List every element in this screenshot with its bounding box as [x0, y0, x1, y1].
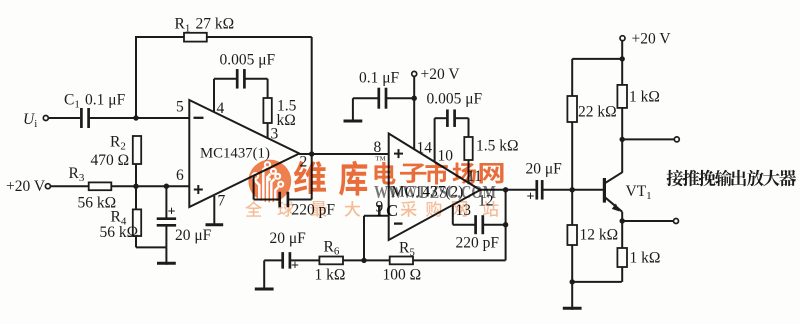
svg-text:+: + [168, 205, 176, 220]
watermark big text 电子市场网 [375, 161, 504, 184]
wire node up to pin9 [363, 216, 365, 261]
wire 220pF right [288, 199, 312, 201]
svg-text:R1 27 kΩ: R1 27 kΩ [175, 15, 235, 34]
svg-text:4: 4 [217, 100, 225, 117]
terminal +20V right [620, 36, 625, 41]
resistor 12k [567, 225, 577, 245]
svg-text:220 pF: 220 pF [456, 235, 500, 252]
resistor R1 [184, 33, 207, 42]
svg-text:22 kΩ: 22 kΩ [578, 104, 617, 121]
svg-text:0.005 μF: 0.005 μF [220, 52, 276, 69]
wire comp cap to 1.5k [244, 78, 267, 80]
wire R1 right drop to output node [311, 37, 313, 154]
svg-text:1 kΩ: 1 kΩ [629, 89, 660, 106]
wire bottom rail [572, 281, 622, 283]
capacitor 220pF (U2) [474, 215, 477, 234]
capacitor 20uF bypass stem top [165, 186, 167, 218]
svg-text:kΩ: kΩ [277, 112, 296, 129]
U1 comp pin stem (220pF) [253, 176, 255, 199]
wire emitter tap [622, 220, 673, 222]
svg-text:7: 7 [218, 193, 226, 210]
capacitor 0.005uF (U2 comp) [446, 109, 449, 127]
svg-text:5: 5 [176, 99, 184, 116]
U2 minus sign pin9 [394, 222, 403, 224]
wire 0.005uF left drop (pin10) [434, 118, 436, 162]
U1 pin4 stem [213, 79, 215, 112]
svg-text:+: + [527, 190, 535, 205]
op-amp U2 MC1437(2) [389, 134, 481, 241]
resistor R6 [319, 257, 343, 265]
resistor 1.5k (U1) [263, 98, 271, 123]
terminal +20V left [45, 184, 50, 189]
ground output stage [571, 283, 573, 310]
wire 220pF2 left [453, 224, 475, 226]
wire 220pF left [254, 199, 280, 201]
svg-text:+20 V: +20 V [6, 178, 46, 195]
wire node A up to R1 rail [135, 37, 137, 118]
wire +20V down [621, 41, 623, 85]
wire left column top [571, 59, 573, 96]
capacitor 0.1uF [377, 88, 380, 109]
wire 0.1uF left [353, 97, 379, 99]
wire down to 1.5k top [267, 79, 269, 98]
resistor R5 [390, 257, 413, 265]
ground 20uF2 [263, 260, 265, 290]
svg-text:56 kΩ: 56 kΩ [100, 224, 139, 241]
resistor 1.5k (U2) [464, 137, 472, 160]
wire down to 1.5k (U2) [468, 118, 470, 137]
node bottom rail [570, 279, 575, 284]
U2 pin14 stem [413, 76, 415, 150]
wire 20uF2 to R6 [290, 259, 320, 261]
ground pin7 [206, 223, 224, 226]
wire 22k to base node [571, 122, 573, 190]
resistor R3 [89, 182, 112, 190]
capacitor 20uF coupling [535, 180, 538, 200]
wire collector tap [622, 138, 674, 140]
wire top rail left [135, 36, 184, 38]
node base divider [570, 187, 575, 192]
wire R4/20uF common [136, 246, 166, 248]
wire C1 to node A [89, 117, 189, 119]
svg-text:+: + [291, 259, 299, 274]
svg-text:20 μF: 20 μF [270, 230, 307, 247]
resistor 1k collector [617, 85, 627, 108]
wire R4 bottom [135, 236, 137, 247]
U1 pin7 stem [213, 196, 215, 226]
wire R3 to pin6 [111, 185, 189, 187]
svg-text:100 Ω: 100 Ω [383, 267, 422, 284]
watermark big text 维库 [294, 161, 367, 196]
wire U2 output [480, 189, 537, 191]
svg-text:C1 0.1 μF: C1 0.1 μF [64, 92, 126, 111]
input terminal Ui [43, 116, 48, 121]
watermark logo circle [248, 160, 291, 203]
U1 minus sign pin5 [194, 117, 204, 119]
svg-text:C: C [386, 201, 398, 220]
op-amp U1 MC1437(1) [189, 100, 299, 207]
wire R5 right to feedback [413, 259, 506, 261]
U1 plus sign pin6 [194, 189, 203, 191]
node +20V/0.1uF [412, 96, 417, 101]
U2 pin11 stem [468, 160, 470, 184]
wire +20V to R3 [50, 185, 88, 187]
U2 pin13 stem [452, 206, 454, 225]
capacitor 20uF (R6) [281, 252, 284, 269]
node output U1 [309, 151, 314, 156]
node U2 output [503, 187, 508, 192]
wire 20uF2 left [264, 259, 283, 261]
svg-text:0.005 μF: 0.005 μF [427, 90, 483, 107]
svg-text:20 μF: 20 μF [526, 161, 563, 178]
node +20V branch [620, 56, 625, 61]
resistor R4 [133, 209, 141, 236]
wire emitter down [621, 212, 623, 248]
wire pin4 to comp cap [214, 78, 237, 80]
wire R2 to node B [135, 164, 137, 186]
label chinese annotation 接推挽输出放大器 [667, 170, 797, 186]
svg-text:1.5 kΩ: 1.5 kΩ [476, 138, 519, 155]
svg-text:470 Ω: 470 Ω [91, 152, 130, 169]
wire 1k emitter to rail [621, 267, 623, 282]
capacitor C1 0.1uF [80, 108, 83, 128]
svg-text:1 kΩ: 1 kΩ [315, 267, 346, 284]
wire feedback drop [505, 190, 507, 261]
svg-text:1 kΩ: 1 kΩ [630, 250, 661, 267]
resistor R2 [133, 136, 141, 164]
node B junction [133, 184, 138, 189]
wire input to C1 [48, 117, 80, 119]
transistor VT1 [604, 172, 622, 212]
capacitor 0.005uF (U1 comp) [236, 69, 239, 89]
ground left [165, 247, 167, 264]
svg-text:0.1 μF: 0.1 μF [359, 70, 400, 87]
node A junction [133, 115, 138, 120]
wire top branch left [572, 58, 622, 60]
U2 plus sign pin8 [394, 153, 403, 155]
wire 0.1uF right [386, 97, 414, 99]
node R6/R5/pin9 [361, 258, 366, 263]
svg-text:8: 8 [374, 139, 382, 156]
wire 20uF bottom [165, 226, 167, 248]
terminal output emitter [674, 219, 679, 224]
capacitor 220pF (U1) [278, 192, 281, 208]
wire 1k to collector node [621, 108, 623, 139]
U1 pin3 stem [267, 123, 269, 138]
wire top rail right [207, 36, 312, 38]
svg-text:+20 V: +20 V [632, 31, 672, 48]
svg-text:10: 10 [438, 148, 454, 165]
wire collector down [621, 139, 623, 172]
svg-text:+20 V: +20 V [421, 66, 461, 83]
wire R4 top [135, 186, 137, 209]
terminal +20V mid [412, 71, 417, 76]
ground 0.1uF [352, 98, 354, 122]
svg-text:WWW.DZSC.COM: WWW.DZSC.COM [374, 182, 496, 202]
terminal output collector [674, 137, 679, 142]
wire coupling cap to base [542, 189, 605, 191]
wire 220pF2 right [483, 224, 505, 226]
wire 0.005uF right [455, 117, 469, 119]
watermark slogan row 全球最大IC采购网站 [245, 201, 498, 217]
svg-text:I: I [376, 201, 383, 220]
wire output drop to 220pF [311, 154, 313, 200]
node C junction [164, 184, 169, 189]
svg-text:6: 6 [176, 167, 184, 184]
resistor 22k [567, 96, 577, 122]
wire base node to 12k [571, 190, 573, 225]
svg-text:20 μF: 20 μF [175, 227, 212, 244]
wire 12k to bottom rail [571, 245, 573, 283]
capacitor 20uF bypass [157, 217, 176, 220]
node emitter tap [620, 218, 625, 223]
node collector [620, 137, 625, 142]
wire U1 output [299, 153, 388, 155]
svg-text:14: 14 [417, 139, 433, 156]
wire R6-R5 [343, 259, 390, 261]
resistor 1k emitter [617, 248, 627, 267]
svg-text:MC1437(1): MC1437(1) [200, 146, 270, 162]
svg-text:12 kΩ: 12 kΩ [580, 227, 619, 244]
node feedback/220pF [503, 222, 508, 227]
